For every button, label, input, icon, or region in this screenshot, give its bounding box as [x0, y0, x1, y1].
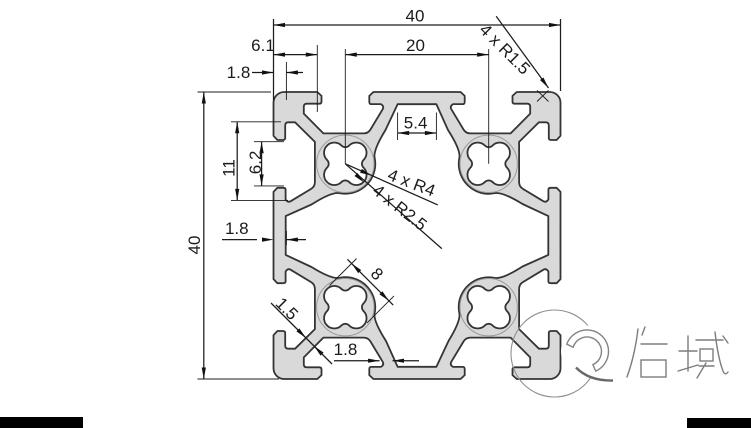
dimension 1.8 (left wall thickness, top)	[227, 62, 303, 100]
svg-text:5.4: 5.4	[404, 114, 428, 133]
svg-text:1.8: 1.8	[334, 340, 358, 359]
watermark outer circle	[511, 310, 598, 397]
watermark Q tail	[576, 368, 613, 381]
leader 4 x R1.5 (corner radius)	[476, 16, 549, 101]
R4 construction circle (top-left boss)	[317, 135, 374, 192]
R4 construction circle (bottom-left boss)	[317, 279, 374, 336]
R4 construction circle (top-right boss)	[460, 135, 517, 192]
svg-text:1.8: 1.8	[227, 63, 251, 82]
leader 4 x R2.5 (screw hole radius)	[345, 164, 442, 249]
black bar bottom-right	[687, 418, 751, 428]
svg-text:1.8: 1.8	[225, 219, 249, 238]
dimension 8 (boss diameter, diagonal)	[330, 259, 394, 323]
dimensions	[185, 7, 561, 380]
leader 4 x R4 (boss radius)	[345, 164, 438, 205]
dimension 40 (overall width, top)	[274, 7, 561, 101]
dimension 1.8 (left wall thickness, middle)	[222, 219, 306, 245]
black bar bottom-left	[0, 417, 83, 428]
watermark character YU	[678, 332, 728, 378]
dimension 11 (slot cavity width)	[220, 122, 288, 201]
watermark Q swirl	[567, 330, 609, 371]
dimension 6.2 (slot opening)	[246, 142, 284, 186]
svg-text:6.1: 6.1	[251, 36, 275, 55]
R4 construction circle (bottom-right boss)	[460, 279, 517, 336]
dimension 40 (overall height, left)	[185, 92, 279, 379]
svg-text:40: 40	[185, 236, 204, 255]
svg-text:6.2: 6.2	[246, 151, 265, 175]
dimension 20 (slot spacing, top)	[345, 36, 488, 164]
watermark logo white disk	[561, 326, 613, 378]
svg-text:11: 11	[220, 159, 239, 177]
dimension 1.5 (diagonal wall thickness)	[271, 294, 332, 364]
watermark character QI	[627, 327, 667, 377]
dimension 5.4 (center notch width)	[398, 113, 437, 141]
aluminium profile cross-section (outer boundary, 8 T-slots, central cavity, 4 clover screw holes)	[274, 92, 561, 379]
dimension 1.8 (bottom rib thickness)	[334, 340, 419, 363]
dimension 6.1 (edge to slot opening)	[251, 36, 317, 112]
svg-text:40: 40	[406, 7, 425, 26]
svg-text:20: 20	[406, 36, 425, 55]
